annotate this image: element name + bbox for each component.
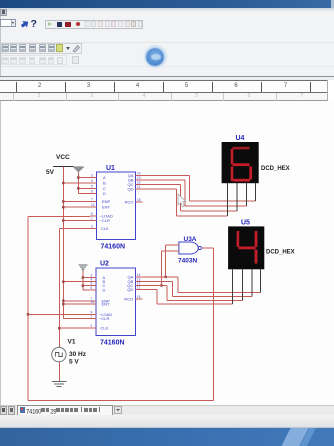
svg-text:VCC: VCC	[56, 154, 70, 161]
svg-text:U1: U1	[106, 165, 115, 172]
svg-text:11: 11	[137, 185, 141, 189]
svg-text:U3A: U3A	[184, 236, 197, 243]
svg-text:13: 13	[137, 176, 141, 180]
svg-text:5: 5	[91, 184, 93, 188]
svg-text:6: 6	[91, 286, 93, 290]
svg-text:QD: QD	[127, 287, 133, 292]
svg-text:2: 2	[91, 225, 93, 229]
svg-text:DCD_HEX: DCD_HEX	[261, 166, 290, 172]
svg-text:14: 14	[137, 171, 141, 175]
svg-text:11: 11	[137, 286, 141, 290]
svg-text:~CLR: ~CLR	[100, 218, 110, 223]
svg-text:DCD_HEX: DCD_HEX	[266, 250, 295, 256]
svg-text:V1: V1	[68, 339, 76, 346]
svg-text:15: 15	[137, 198, 141, 202]
svg-text:4: 4	[91, 179, 93, 183]
svg-text:QD: QD	[128, 186, 134, 191]
svg-text:CLK: CLK	[101, 326, 109, 331]
svg-text:1: 1	[91, 315, 93, 319]
svg-text:D: D	[103, 191, 106, 196]
svg-text:CLK: CLK	[101, 226, 109, 231]
svg-text:74160N: 74160N	[100, 340, 125, 347]
svg-text:15: 15	[137, 295, 141, 299]
svg-text:U2: U2	[100, 261, 109, 268]
svg-text:7403N: 7403N	[178, 258, 197, 265]
svg-text:12: 12	[137, 180, 141, 184]
svg-text:9: 9	[91, 212, 93, 216]
svg-text:3: 3	[91, 174, 93, 178]
svg-text:30 Hz: 30 Hz	[69, 351, 87, 358]
svg-text:U4: U4	[236, 135, 245, 142]
svg-text:10: 10	[91, 203, 95, 207]
svg-text:ENT: ENT	[102, 205, 111, 210]
svg-text:6: 6	[91, 190, 93, 194]
svg-text:5V: 5V	[46, 169, 55, 176]
svg-text:5 V: 5 V	[69, 359, 79, 366]
svg-text:~CLR: ~CLR	[99, 316, 109, 321]
svg-text:2: 2	[91, 324, 93, 328]
svg-text:1: 1	[91, 217, 93, 221]
svg-text:14: 14	[137, 273, 141, 277]
svg-text:ENP: ENP	[102, 199, 111, 204]
svg-text:7: 7	[91, 198, 93, 202]
svg-text:B: B	[103, 181, 106, 186]
svg-text:C: C	[103, 186, 106, 191]
svg-text:5: 5	[91, 282, 93, 286]
svg-text:74160N: 74160N	[101, 244, 126, 251]
svg-text:RCO: RCO	[125, 200, 134, 205]
svg-text:D: D	[103, 288, 106, 293]
svg-text:ENT: ENT	[102, 302, 111, 307]
svg-text:10: 10	[91, 300, 95, 304]
svg-text:RCO: RCO	[124, 297, 133, 302]
svg-text:U5: U5	[241, 220, 250, 227]
svg-text:A: A	[103, 175, 106, 180]
